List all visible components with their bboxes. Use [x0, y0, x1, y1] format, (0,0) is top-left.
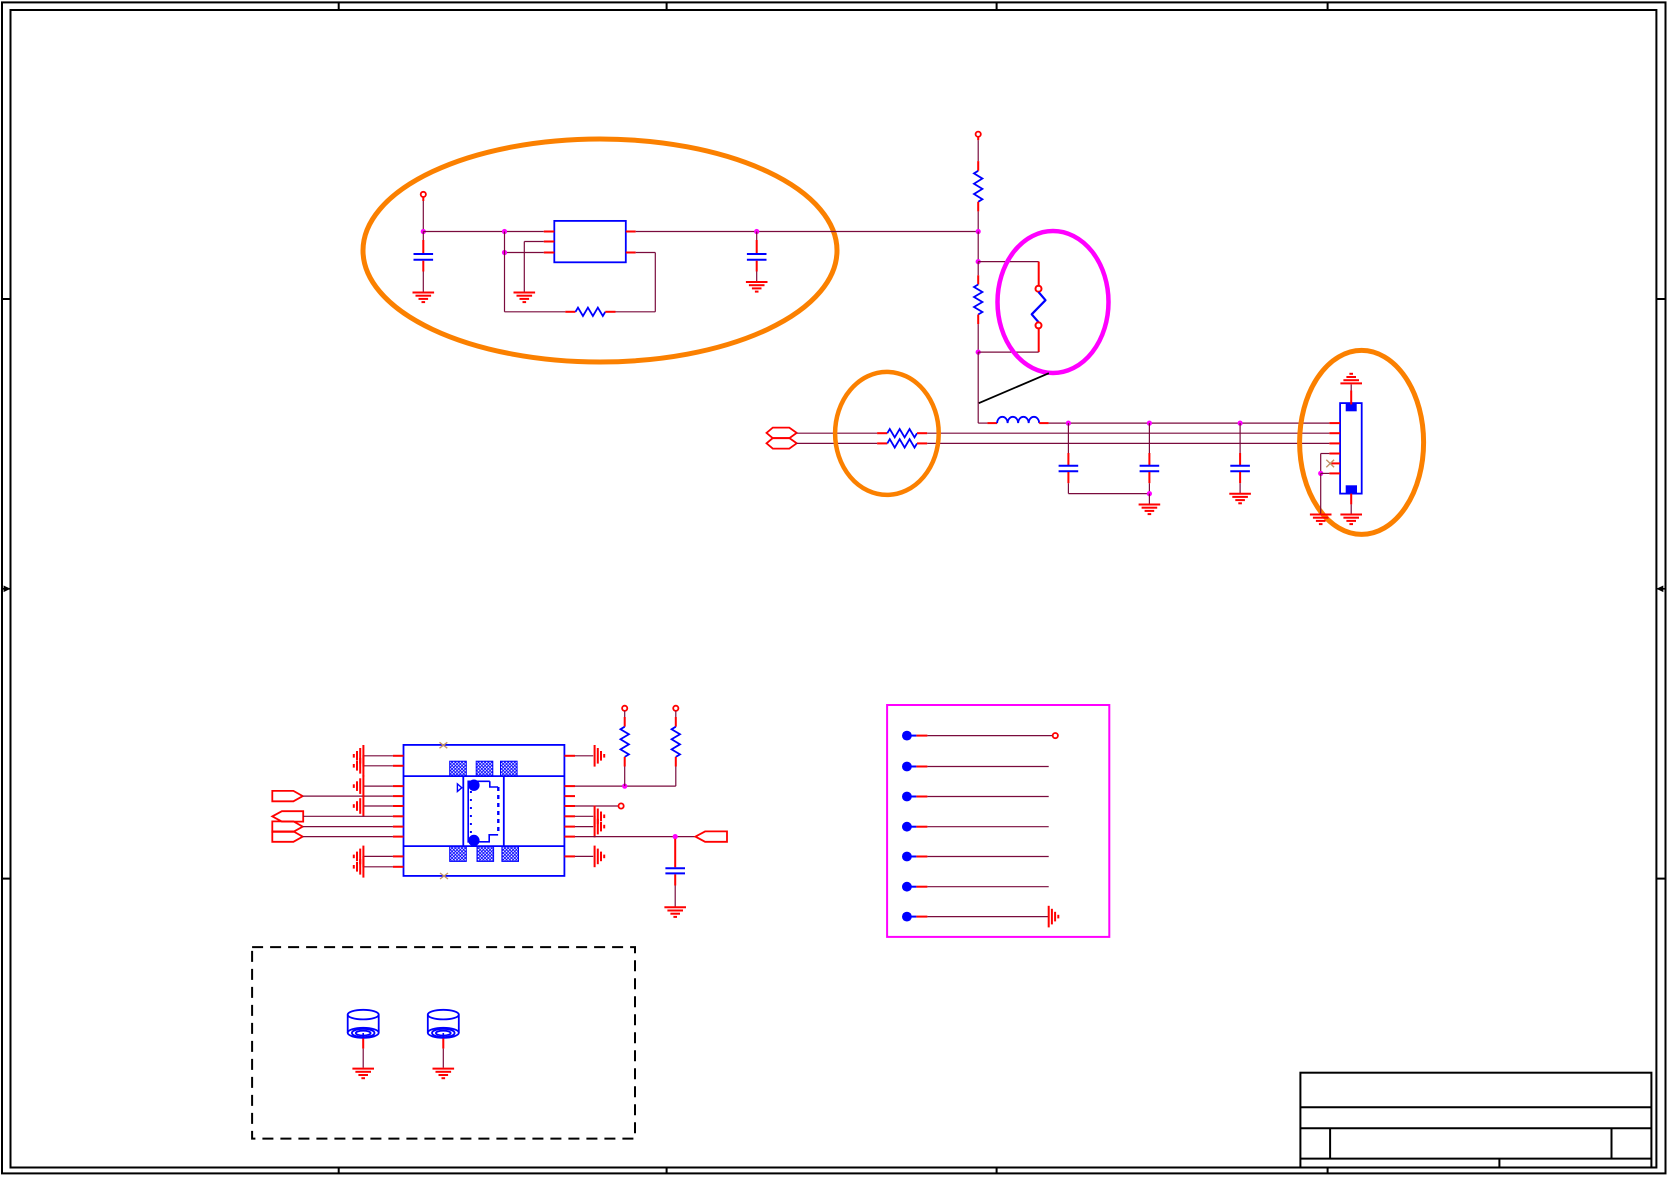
regulator U1 body — [554, 221, 626, 262]
wire right shield top — [575, 755, 593, 757]
U1 pin 1 input — [544, 231, 555, 233]
highlight ellipse around thermistor — [998, 231, 1109, 373]
port D+ right-pointing — [272, 821, 302, 831]
signal stub 4 — [902, 822, 912, 832]
J1 pin 4 — [1329, 453, 1340, 455]
J2 left pin y796.1 — [393, 795, 404, 797]
capacitor C4 — [1148, 423, 1150, 453]
mounting pad bottom 3 — [502, 846, 519, 861]
node ground link junction — [1147, 491, 1152, 496]
wire port TX to pin — [303, 795, 393, 797]
signal stub 6 — [902, 882, 912, 892]
wire P1 to R3 — [797, 432, 877, 434]
resistor R feedback — [565, 311, 575, 313]
border center arrow left — [2, 588, 10, 590]
ground signal 7 — [1048, 906, 1050, 928]
J2 right pin y796.1 — [564, 795, 575, 797]
power input terminal circle — [421, 192, 426, 197]
wire terminal to R1 — [977, 137, 979, 140]
resistor R3 series — [877, 432, 887, 434]
node divider bottom junction — [976, 350, 981, 355]
J2 divider upper — [404, 775, 565, 777]
wire right gnd row 816 — [575, 815, 593, 817]
J2 left pin y786.1 — [393, 785, 404, 787]
jack pin circle top — [468, 780, 479, 791]
wire port RX to pin — [303, 815, 393, 817]
mounting pad top 3 — [501, 761, 518, 776]
J2 left pin y816.3 — [393, 815, 404, 817]
title block bottom divider — [1498, 1159, 1500, 1168]
power terminal circle top — [976, 132, 981, 137]
wire left shield 2 — [363, 765, 393, 767]
wire thermistor bottom return — [978, 351, 1038, 353]
J2 right pin y806 — [564, 805, 575, 807]
J2 inner wall right — [503, 776, 505, 846]
J2 right pin y836.6 — [564, 836, 575, 838]
node junction main rail — [976, 229, 981, 234]
port RX left-pointing — [272, 811, 303, 821]
terminal circle row 806 — [619, 803, 624, 808]
wire to thermistor top — [978, 261, 1038, 263]
ground below buzzer 2 — [433, 1068, 455, 1070]
buzzer cylinder 2 — [428, 1010, 459, 1020]
wire L1 to connector line1 — [1049, 422, 1330, 424]
wire R1 to junction — [977, 211, 979, 231]
J2 right pin y826.6 — [564, 826, 575, 828]
J1 pin 1 — [1329, 422, 1340, 424]
buzzer 2 pin — [442, 1039, 444, 1049]
J2 inner wall left — [462, 776, 464, 846]
pullup resistor R6 — [673, 706, 678, 711]
ground below J1 shield — [1340, 514, 1362, 516]
signal group box — [887, 705, 1109, 937]
wire row 836 to port — [575, 836, 695, 838]
port TX right-pointing — [272, 791, 302, 801]
signal stub 5 — [902, 852, 912, 862]
highlight ellipse around connector J1 — [1300, 350, 1424, 534]
ground below C4 — [1139, 504, 1161, 506]
node divider top junction — [976, 259, 981, 264]
border zone ticks bottom — [338, 1168, 340, 1174]
J1 shield pad bottom — [1346, 485, 1357, 493]
node cap1 tap — [1066, 421, 1071, 426]
highlight ellipse around regulator circuit — [363, 139, 837, 362]
J1 pin 5 no-connect — [1329, 462, 1340, 464]
wire power to junction — [422, 197, 424, 201]
jack J2 body — [404, 745, 565, 876]
J2 right pin y786.1 — [564, 785, 575, 787]
thermistor RT1 — [1038, 262, 1040, 286]
wire row 806 to terminal — [575, 805, 619, 807]
wire input to regulator pin — [423, 231, 544, 233]
J1 shield pad top — [1346, 404, 1357, 412]
U1 pin 4 output — [626, 231, 636, 233]
port VBUS left-pointing — [695, 831, 727, 841]
title block cell divider right — [1611, 1128, 1613, 1158]
wire pin4 to pin6 junction — [1321, 453, 1330, 455]
wire U1 gnd pin to ground — [524, 241, 544, 243]
border zone ticks right — [1656, 298, 1665, 300]
wire junction down leg — [504, 232, 506, 312]
ground left row5 — [362, 795, 364, 817]
J2 left pin y806 — [393, 805, 404, 807]
wire regulator output — [636, 231, 979, 233]
ground right top — [594, 745, 596, 767]
J1 top pin to power bar — [1350, 391, 1352, 405]
J2 right pin y755.8 — [564, 755, 575, 757]
signal stub 1 — [902, 731, 912, 741]
wire down to inductor — [977, 352, 979, 423]
border zone ticks left — [2, 298, 11, 300]
wire right shield bottom — [575, 855, 593, 857]
node cap3 tap — [1238, 421, 1243, 426]
node adj junction — [502, 250, 507, 255]
ground below U1 — [514, 292, 536, 294]
wire left gnd row3 — [363, 785, 393, 787]
title block row line 1 — [1300, 1106, 1651, 1108]
pullup resistor R5 — [622, 706, 627, 711]
wire R3 to connector line2 — [927, 432, 1329, 434]
ground right bottom — [594, 846, 596, 868]
capacitor C1 input — [422, 232, 424, 241]
J2 divider lower — [404, 845, 565, 847]
title block row line 2 — [1300, 1127, 1651, 1129]
wire port D+ to pin — [303, 826, 393, 828]
resistor R1 vertical — [977, 161, 979, 171]
capacitor C6 — [674, 839, 676, 868]
mounting pad top 2 — [476, 761, 493, 776]
jack orientation triangle — [457, 784, 461, 792]
ground below C6 — [664, 906, 686, 908]
J1 pin 6 — [1329, 472, 1340, 474]
wire feedback bottom right — [616, 311, 656, 313]
ground below C2 — [746, 281, 768, 283]
signal stub 7 — [902, 912, 912, 922]
border center arrow right — [1657, 588, 1665, 590]
node pullup junction — [622, 784, 627, 789]
title block row line 3 — [1300, 1158, 1651, 1160]
wire junction down — [977, 232, 979, 262]
node output junction — [754, 229, 759, 234]
U1 pin 3 adj — [544, 252, 555, 254]
jack face outline — [468, 781, 498, 842]
port P2 line3 — [767, 438, 797, 449]
node cap2 tap — [1147, 421, 1152, 426]
resistor R2 vertical — [977, 262, 979, 276]
terminal circle signal 1 — [1053, 733, 1058, 738]
mounting pad bottom 2 — [477, 846, 494, 861]
ground left shield pair bottom — [362, 846, 364, 868]
capacitor C5 — [1239, 423, 1241, 453]
ground below J1 pins — [1310, 514, 1332, 516]
wire adj pin to junction — [505, 252, 544, 254]
wire P2 to R4 — [797, 442, 877, 444]
ground below C1 — [413, 292, 435, 294]
U1 pin 2 gnd — [544, 241, 555, 243]
J2 left pin y765.8 — [393, 765, 404, 767]
mounting pad top 1 — [450, 761, 467, 776]
signal stub 3 — [902, 792, 912, 802]
X mark top edge — [440, 742, 448, 748]
buzzer 1 pin — [362, 1039, 364, 1049]
wire left shield 4 — [363, 866, 393, 868]
title block cell divider left — [1329, 1128, 1331, 1158]
node junction at x504 — [502, 229, 507, 234]
optional parts dashed box — [252, 947, 635, 1139]
ground left row3 — [362, 775, 364, 797]
wire R4 to connector line3 — [927, 442, 1329, 444]
connector J1 body — [1340, 403, 1362, 494]
J1 pin 2 — [1329, 432, 1340, 434]
J1 pin 3 — [1329, 442, 1340, 444]
border zone ticks top — [338, 2, 340, 10]
jack face contacts dashed — [497, 787, 499, 835]
J2 right pin y856.4 — [564, 855, 575, 857]
jack pin circle bottom — [468, 835, 479, 846]
ground left shield pair — [362, 745, 364, 767]
node main input junction — [421, 229, 426, 234]
wire feedback bottom left — [505, 311, 566, 313]
J2 right pin y816.3 — [564, 815, 575, 817]
callout line — [979, 373, 1049, 403]
J2 left pin y826.6 — [393, 826, 404, 828]
ground below buzzer 1 — [352, 1068, 374, 1070]
power symbol above J1 — [1340, 382, 1362, 384]
port D- right-pointing — [272, 831, 302, 841]
title block outline — [1300, 1073, 1651, 1168]
U1 pin 5 sense — [626, 252, 636, 254]
wire port D- to pin — [303, 836, 393, 838]
capacitor C2 output — [756, 232, 758, 241]
wire left gnd row5 — [363, 805, 393, 807]
capacitor C3 — [1067, 423, 1069, 453]
buzzer cylinder 1 — [348, 1010, 379, 1020]
node cap junction row 836 — [673, 834, 678, 839]
wire C3 to C4 ground link — [1068, 493, 1149, 495]
wire junction to ground — [1320, 473, 1322, 514]
wire left shield 3 — [363, 855, 393, 857]
J2 left pin y755.8 — [393, 755, 404, 757]
ground right pair — [594, 806, 596, 828]
J2 left pin y836.6 — [393, 836, 404, 838]
mounting pad bottom 1 — [450, 846, 467, 861]
J1 bottom pin to ground — [1350, 494, 1352, 505]
wire left shield 1 — [363, 755, 393, 757]
port P1 line2 — [767, 428, 797, 439]
wire row 786 to pullups — [575, 785, 676, 787]
inductor L1 — [987, 422, 997, 424]
ground below C5 — [1229, 493, 1251, 495]
J2 left pin y856.4 — [393, 855, 404, 857]
X mark bottom edge — [440, 873, 448, 879]
J2 left pin y866.8 — [393, 866, 404, 868]
wire right gnd row 826 — [575, 826, 593, 828]
highlight ellipse around series resistors — [835, 372, 939, 495]
resistor R4 series — [877, 442, 887, 444]
node pin6 junction — [1318, 471, 1323, 476]
signal stub 2 — [902, 762, 912, 772]
